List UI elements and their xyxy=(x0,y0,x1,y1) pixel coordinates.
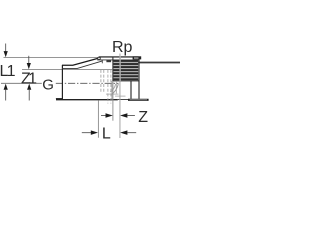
extension line Z1 top xyxy=(22,69,112,71)
dim Z1 bottom arrow xyxy=(27,84,31,90)
nut top line xyxy=(97,59,139,61)
Rp stripe over thread xyxy=(119,57,121,82)
seat arc outer xyxy=(111,84,118,95)
dim Z1 top arrow xyxy=(27,63,31,69)
seat arc inner xyxy=(110,84,115,92)
svg-text:L: L xyxy=(102,125,111,142)
dim Z1 bottom leader xyxy=(28,89,30,101)
body bottom line xyxy=(56,99,118,101)
dim Z tail right xyxy=(127,115,135,117)
dim Z1 top leader xyxy=(28,56,30,64)
dim L arrow left xyxy=(91,130,98,135)
gray line under socket b xyxy=(115,95,126,97)
baseline left of G xyxy=(1,82,42,84)
dim L1 top leader xyxy=(5,44,7,53)
thread band 3 xyxy=(113,66,138,68)
socket top edge xyxy=(99,56,139,58)
thread background xyxy=(113,60,138,80)
dim Z tail left xyxy=(101,115,107,117)
thread band 6 xyxy=(113,75,138,77)
svg-text:Z: Z xyxy=(138,109,148,126)
svg-text:L1: L1 xyxy=(0,63,16,80)
hidden line union 3 xyxy=(107,70,109,104)
nut dark block xyxy=(106,60,111,63)
thread band 1 xyxy=(113,60,138,62)
extension line Rp / right xyxy=(119,54,121,139)
thread band 2 xyxy=(113,63,138,65)
bottom line continuation xyxy=(118,99,128,101)
socket left edge xyxy=(112,57,114,81)
dim L1 bottom leader xyxy=(5,89,7,101)
dim L1 top arrow xyxy=(4,51,8,57)
foot tab left xyxy=(56,98,63,100)
extension line Z left xyxy=(112,81,114,121)
hidden line union 2 xyxy=(103,70,105,93)
dim Z arrow left xyxy=(106,113,113,118)
foot plate highlight xyxy=(130,99,148,101)
hidden line union 4 xyxy=(110,70,112,104)
dim Z arrow right xyxy=(120,113,127,118)
long line to right edge xyxy=(136,61,181,63)
svg-text:Rp: Rp xyxy=(112,39,133,56)
corner block slot xyxy=(134,57,139,60)
hidden edge pair xyxy=(111,81,113,100)
socket top corner block xyxy=(133,56,142,59)
apex vertical edge xyxy=(101,60,103,63)
svg-text:G: G xyxy=(42,76,54,93)
body left edge xyxy=(61,65,63,100)
dim L tail right xyxy=(127,132,136,134)
thread bottom edge xyxy=(113,80,139,82)
dim L arrow right xyxy=(120,130,127,135)
body top inner chamfer line xyxy=(62,61,102,68)
hidden edge short xyxy=(115,81,117,94)
foot plate xyxy=(128,99,149,101)
dim L tail left xyxy=(82,132,92,134)
extension line L left xyxy=(97,100,99,137)
extension line L1 top xyxy=(4,56,101,58)
socket right edge xyxy=(138,57,140,99)
centerline dash-dot xyxy=(56,82,119,84)
dim L1 bottom arrow xyxy=(4,84,8,90)
thread band 5 xyxy=(113,72,138,74)
gray line under socket a xyxy=(106,93,119,95)
hidden line union 1 xyxy=(100,70,102,93)
body top outer edge and cone xyxy=(62,58,100,65)
thread band 7 xyxy=(113,78,138,80)
thread band 4 xyxy=(113,69,138,71)
cone apex ring xyxy=(98,57,101,59)
socket inner wall xyxy=(130,81,132,99)
